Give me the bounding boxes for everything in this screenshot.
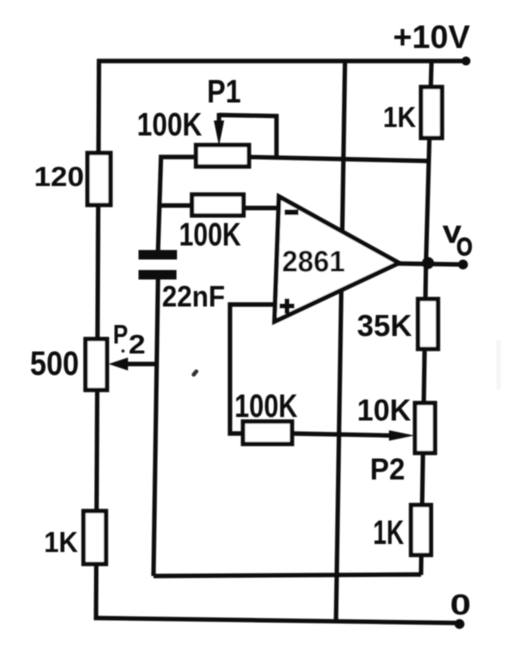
potentiometer 500 (P2) body xyxy=(86,339,108,390)
wire: right column upper (+10V to output node) xyxy=(426,61,432,263)
svg-text:2: 2 xyxy=(129,330,146,360)
resistor 1K left xyxy=(84,511,107,564)
node: 0 terminal dot xyxy=(455,619,465,629)
op-amp U1 2861 xyxy=(275,197,400,322)
wire: P1 right terminal to right column xyxy=(248,157,429,161)
capacitor C1 22nF top plate xyxy=(139,250,178,260)
scan mark near node xyxy=(191,369,199,378)
svg-text:P2: P2 xyxy=(370,452,405,487)
node: output junction dot xyxy=(422,257,434,269)
resistor 100K feedback xyxy=(243,422,292,445)
svg-text:10K: 10K xyxy=(357,393,412,428)
wire: left vertical rail xyxy=(96,59,99,620)
svg-text:120: 120 xyxy=(34,161,84,192)
wire: input 100K right lead to op-amp minus input xyxy=(243,206,280,210)
wire: bottom 0 rail xyxy=(94,618,460,623)
svg-text:+10V: +10V xyxy=(393,19,471,55)
wire: op-amp output to V0 terminal xyxy=(397,264,463,265)
svg-text:O: O xyxy=(457,234,473,262)
arrow: 10K wiper arrowhead xyxy=(389,430,415,440)
resistor 120 xyxy=(88,153,111,205)
svg-text:0: 0 xyxy=(450,590,471,622)
svg-text:1K: 1K xyxy=(383,102,416,134)
arrow: 500 pot wiper arrowhead xyxy=(109,358,129,371)
arrow: P1 wiper arrowhead xyxy=(214,121,224,147)
svg-text:1K: 1K xyxy=(373,514,404,552)
svg-text:35K: 35K xyxy=(357,308,413,343)
svg-text:100K: 100K xyxy=(235,388,298,424)
potentiometer 10K (P2) body xyxy=(415,403,435,453)
svg-text:22nF: 22nF xyxy=(162,281,225,314)
wire: right column lower (output node to inner bottom wire) xyxy=(421,263,426,575)
svg-text:100K: 100K xyxy=(179,217,241,253)
svg-text:1K: 1K xyxy=(44,527,78,559)
label P2 left xyxy=(113,320,146,360)
svg-text:P: P xyxy=(113,320,128,350)
wire: left-middle vertical below capacitor xyxy=(154,279,159,576)
wire: P1 wiper to right terminal loop xyxy=(219,115,277,159)
wire: P1 left terminal to left-middle vertical xyxy=(158,157,197,251)
scan dot near P2 xyxy=(121,349,124,352)
scan smudge right column xyxy=(496,340,501,390)
wire: op-amp plus input loop down to feedback 100K xyxy=(230,305,279,434)
wire: center vertical xyxy=(336,61,345,620)
svg-text:100K: 100K xyxy=(137,107,202,143)
svg-text:P1: P1 xyxy=(207,74,241,110)
wire: P1 wiper arm xyxy=(217,113,221,123)
capacitor C1 22nF bottom plate xyxy=(139,270,177,280)
node: +10V terminal dot xyxy=(462,57,471,66)
svg-text:2861: 2861 xyxy=(282,246,345,279)
wire: feedback 100K right lead to 10K wiper xyxy=(291,434,391,436)
potentiometer P1 100K body xyxy=(196,145,249,167)
wire: top +10V rail xyxy=(97,59,466,63)
wire: inner bottom horizontal xyxy=(154,575,422,577)
resistor 100K input xyxy=(192,195,244,216)
wire: input 100K left lead xyxy=(159,203,193,207)
op-amp plus sign xyxy=(280,299,295,314)
resistor 1K right xyxy=(411,505,431,555)
svg-text:500: 500 xyxy=(30,345,79,383)
resistor 1K top right xyxy=(421,87,442,138)
op-amp minus sign xyxy=(285,210,299,216)
resistor 35K xyxy=(418,299,438,349)
wire: 500 pot wiper from left-middle vertical xyxy=(128,362,157,366)
node V0 terminal dot xyxy=(458,260,468,270)
